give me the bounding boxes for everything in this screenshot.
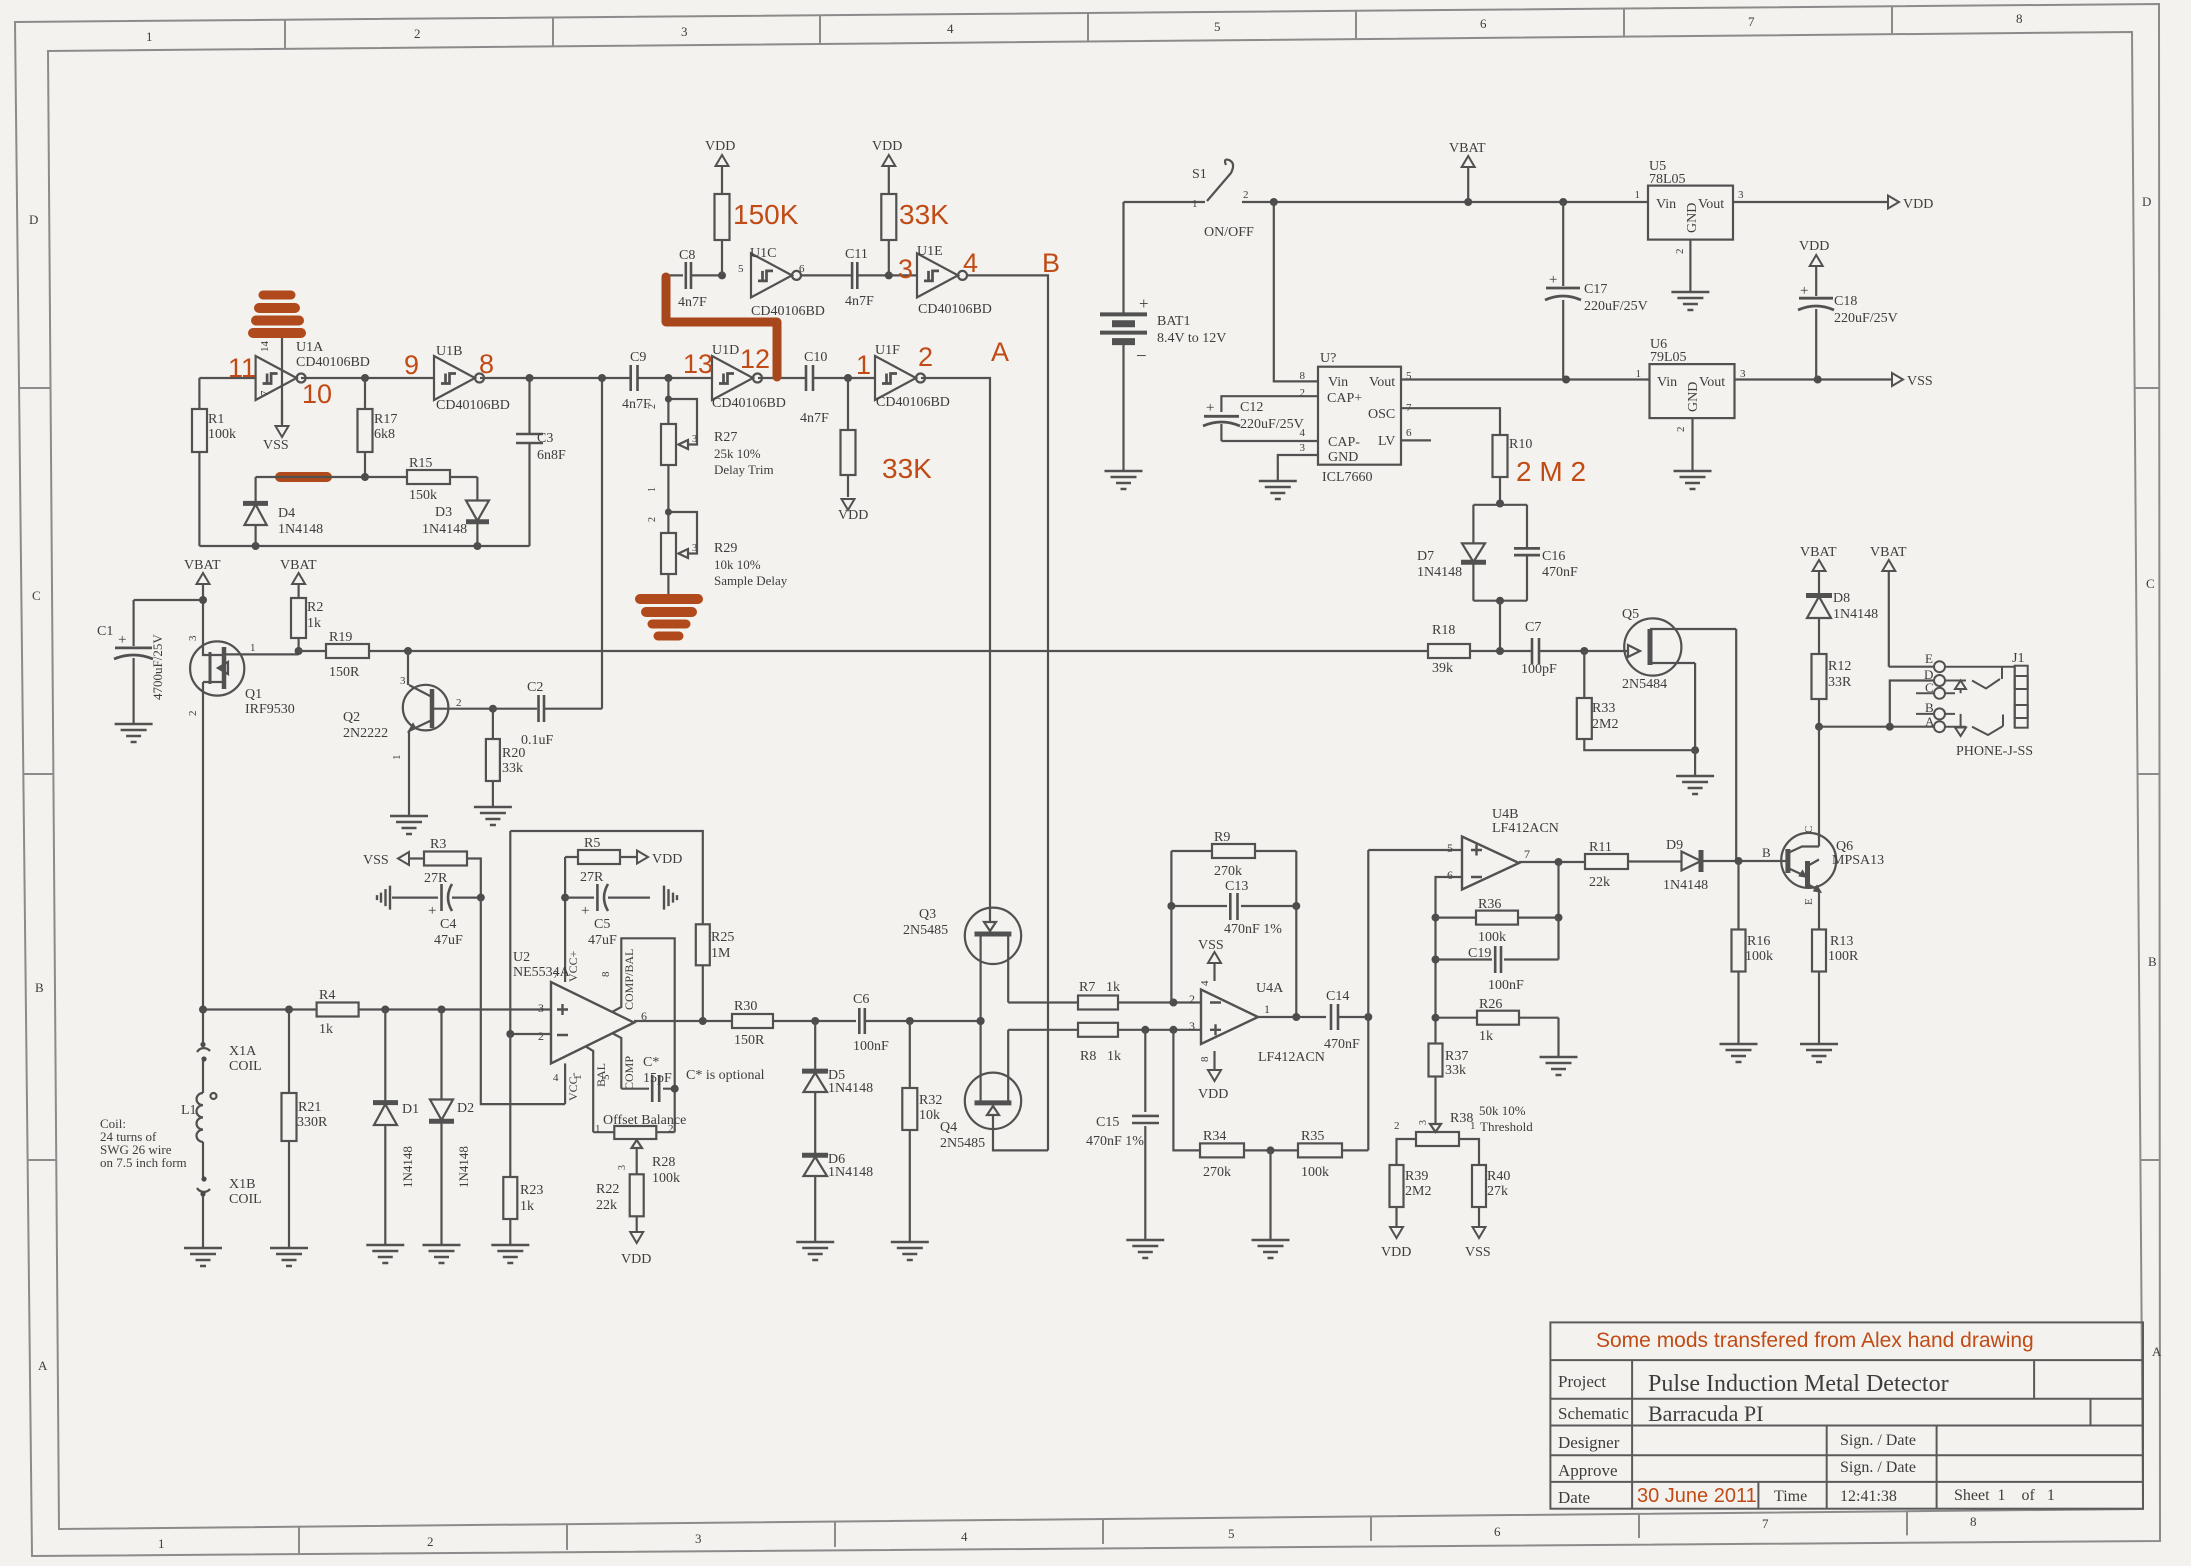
svg-text:C4: C4 [440,917,456,932]
wire U4A output [1258,1013,1326,1021]
svg-text:150K: 150K [733,199,799,230]
svg-text:C: C [2146,576,2155,591]
svg-text:R21: R21 [298,1100,321,1115]
ground below R23 [491,1245,529,1263]
svg-text:3: 3 [617,1165,628,1170]
capacitor C9 4n7F [622,350,712,412]
ground below Q2 emitter [390,816,428,834]
svg-text:1k: 1k [319,1022,333,1037]
ground below R13 [1800,1044,1838,1062]
orange annotation 9 [404,350,419,380]
svg-text:CD40106BD: CD40106BD [751,304,825,319]
svg-text:VSS: VSS [1198,938,1224,953]
svg-text:R15: R15 [409,456,432,471]
svg-text:ON/OFF: ON/OFF [1204,225,1254,240]
svg-text:4: 4 [963,248,978,278]
svg-text:47uF: 47uF [588,933,617,948]
svg-text:78L05: 78L05 [1649,172,1686,187]
trimmer R29 10k Sample Delay [647,508,788,601]
svg-text:2: 2 [647,517,658,522]
svg-text:27R: 27R [580,870,604,885]
svg-text:150R: 150R [329,665,360,680]
svg-text:33R: 33R [1828,675,1852,690]
wire U4B pin6 rail [1432,877,1463,1044]
svg-text:470nF 1%: 470nF 1% [1224,922,1282,937]
svg-text:1N4148: 1N4148 [422,522,467,537]
diode D4 1N4148 [243,477,323,546]
svg-text:Designer: Designer [1558,1433,1620,1452]
op-amp U7 ICL7660 (U?) [1300,351,1413,485]
svg-text:B: B [1762,845,1771,860]
svg-text:D9: D9 [1666,838,1683,853]
wire U1C output to C11 [801,274,852,276]
svg-text:4n7F: 4n7F [845,294,874,309]
svg-text:Barracuda PI: Barracuda PI [1648,1401,1763,1426]
svg-text:Q4: Q4 [940,1120,957,1135]
svg-text:C10: C10 [804,350,827,365]
svg-text:CD40106BD: CD40106BD [918,302,992,317]
svg-text:8: 8 [1970,1514,1977,1529]
pin 1 BAL stub of U2 [572,1046,608,1132]
svg-text:R34: R34 [1203,1129,1226,1144]
svg-text:Approve: Approve [1558,1461,1617,1480]
svg-text:R8: R8 [1080,1049,1096,1064]
capacitor C18 220uF/25V [1798,266,1898,380]
svg-text:BAT1: BAT1 [1157,314,1190,329]
svg-text:+: + [1139,294,1149,313]
svg-text:+: + [1800,283,1808,299]
diode D2 1N4148 [429,1010,474,1246]
svg-text:COMP/BAL: COMP/BAL [622,949,636,1010]
wire Q1 drain node to coil and R4 [199,1006,317,1014]
wire U4B output node [1519,858,1585,922]
svg-text:Pulse Induction Metal Detector: Pulse Induction Metal Detector [1648,1371,1949,1397]
resistor R7 1k [1078,980,1201,1010]
svg-text:R4: R4 [319,988,335,1003]
svg-text:U4A: U4A [1256,981,1284,996]
svg-text:VDD: VDD [1198,1087,1228,1102]
svg-text:Some mods transfered from Alex: Some mods transfered from Alex hand draw… [1596,1329,2034,1352]
svg-text:6: 6 [1494,1524,1501,1539]
svg-text:1: 1 [1470,1120,1476,1132]
pin 5 COMP stub of U2 [600,1033,636,1090]
svg-text:ICL7660: ICL7660 [1322,470,1373,485]
resistor R13 100R [1812,930,1859,1045]
trimmer R28 100k Offset Balance [593,1113,686,1186]
svg-text:S1: S1 [1192,167,1207,182]
svg-text:4: 4 [1199,980,1211,986]
svg-text:100nF: 100nF [853,1039,889,1054]
ground below R26 [1540,1057,1578,1075]
capacitor C8 4n7F [662,248,726,310]
svg-text:D4: D4 [278,506,295,521]
svg-text:5: 5 [1447,841,1453,855]
svg-text:A: A [991,337,1009,367]
svg-text:E: E [1803,898,1815,905]
svg-text:6: 6 [1406,427,1412,439]
transistor Q5 2N5484 JFET [1622,607,1736,754]
svg-text:Sheet 1 of 1: Sheet 1 of 1 [1954,1487,2055,1504]
resistor R34 270k [1200,1129,1298,1180]
power VBAT above D8 [1800,545,1837,594]
svg-text:8: 8 [600,971,612,977]
op-amp U1C CD40106BD inverter [750,246,825,319]
svg-text:Vout: Vout [1369,375,1395,390]
svg-text:470nF: 470nF [1542,565,1578,580]
svg-text:50k 10%: 50k 10% [1479,1103,1526,1118]
svg-text:R26: R26 [1479,997,1502,1012]
svg-text:R1: R1 [208,412,224,427]
diode D7 1N4148 [1417,543,1486,580]
svg-text:2: 2 [456,697,462,709]
connector J1 PHONE-J-SS [1916,651,2033,759]
svg-text:VDD: VDD [705,139,735,154]
svg-text:2M2: 2M2 [1405,1184,1431,1199]
resistor R39 2M2 [1390,1165,1432,1227]
svg-text:2: 2 [1394,1120,1400,1132]
svg-text:100k: 100k [1478,930,1506,945]
svg-text:C19: C19 [1468,946,1491,961]
op-amp U4A LF412ACN [1189,980,1325,1065]
svg-text:10k: 10k [919,1108,940,1123]
wire net A from U1F output [921,378,990,908]
svg-text:Date: Date [1558,1488,1590,1507]
wire pin3 rail to R34 [1173,1030,1200,1151]
diode D3 1N4148 [422,477,489,546]
svg-text:U1C: U1C [750,246,776,261]
switch S1 ON/OFF [1124,160,1274,240]
svg-text:3: 3 [1189,1019,1195,1033]
svg-text:12:41:38: 12:41:38 [1840,1488,1897,1505]
svg-text:3: 3 [692,543,697,554]
svg-text:VSS: VSS [263,438,289,453]
svg-text:1: 1 [856,350,871,380]
svg-text:2: 2 [668,1123,674,1135]
svg-text:Project: Project [1558,1372,1606,1391]
capacitor C11 4n7F [845,247,917,309]
node VSS at U1A [263,438,289,453]
wire feedback top to R25 [510,831,703,924]
svg-text:PHONE-J-SS: PHONE-J-SS [1956,744,2033,759]
svg-text:Delay Trim: Delay Trim [714,462,774,477]
svg-text:Vout: Vout [1698,197,1724,212]
svg-text:1: 1 [572,1075,584,1081]
op-amp U1B CD40106BD inverter [434,344,510,413]
svg-text:CAP-: CAP- [1328,435,1360,450]
svg-text:3: 3 [1300,442,1306,454]
svg-text:4: 4 [553,1072,559,1084]
svg-text:R16: R16 [1747,934,1770,949]
ground below R21 [270,1248,308,1266]
transistor Q1 IRF9530 MOSFET [187,600,299,1010]
svg-text:100R: 100R [1828,949,1859,964]
ground below C15 [1126,1240,1164,1258]
svg-text:A: A [1925,714,1935,729]
svg-text:+: + [1206,400,1214,416]
svg-text:220uF/25V: 220uF/25V [1834,311,1898,326]
svg-text:B: B [1925,700,1934,715]
svg-text:220uF/25V: 220uF/25V [1584,299,1648,314]
capacitor C13 470nF 1% [1167,879,1300,1017]
power VBAT arrow on rail [1449,141,1486,202]
svg-text:33K: 33K [899,199,949,230]
op-amp U1E CD40106BD inverter [917,244,992,317]
svg-text:1: 1 [1636,368,1642,380]
svg-text:VSS: VSS [1465,1245,1491,1260]
transistor Q4 2N5485 JFET [940,1030,1078,1151]
resistor R25 1M [696,924,735,1021]
connector X1B COIL [197,1176,262,1248]
svg-text:2: 2 [1189,992,1195,1006]
svg-text:1: 1 [595,1123,601,1135]
svg-text:R35: R35 [1301,1129,1324,1144]
svg-text:Sign. / Date: Sign. / Date [1840,1432,1916,1449]
capacitor C5 47uF [561,857,650,982]
svg-text:C16: C16 [1542,549,1565,564]
svg-text:VBAT: VBAT [1800,545,1837,560]
svg-text:A: A [2152,1344,2162,1359]
svg-text:VDD: VDD [652,852,682,867]
svg-text:D: D [2142,194,2151,209]
title row Schematic [1558,1401,1763,1426]
svg-text:R10: R10 [1509,437,1532,452]
svg-text:B: B [2148,954,2157,969]
diode D6 1N4148 [802,1152,873,1242]
svg-text:Vin: Vin [1656,197,1676,212]
resistor R36 100k [1436,897,1559,945]
svg-text:13: 13 [683,349,713,379]
orange annotation 4 [963,248,978,278]
svg-text:U1F: U1F [875,343,900,358]
svg-text:VDD: VDD [1903,197,1933,212]
orange annotation 2 M 2 [1516,456,1586,487]
svg-text:6: 6 [799,263,805,275]
svg-text:3: 3 [1740,368,1746,380]
svg-text:4n7F: 4n7F [800,411,829,426]
svg-text:1: 1 [250,642,256,654]
svg-text:R5: R5 [584,836,600,851]
svg-text:C9: C9 [630,350,646,365]
wire C2 up to C9 node [601,378,603,709]
svg-text:VDD: VDD [838,508,868,523]
svg-text:VDD: VDD [621,1252,651,1267]
svg-text:30 June 2011: 30 June 2011 [1637,1485,1757,1507]
power VDD below U4A [1198,1051,1228,1102]
svg-text:R36: R36 [1478,897,1501,912]
orange marker stroke on D4 wire [280,472,327,482]
transistor Q6 MPSA13 darlington [1781,833,1884,930]
svg-text:14: 14 [259,341,271,353]
power VSS above U4A [1198,938,1224,981]
wire VBAT rail from S1 to U5 [1270,198,1648,206]
svg-text:2: 2 [414,26,421,41]
svg-text:Q1: Q1 [245,687,262,702]
op-amp U6 79L05 regulator [1636,337,1747,432]
svg-text:2: 2 [187,711,199,717]
resistor R35 100k [1298,850,1368,1180]
resistor R5 27R [565,836,637,885]
svg-text:4n7F: 4n7F [678,295,707,310]
svg-text:1N4148: 1N4148 [828,1081,873,1096]
power VDD below R22 [621,1232,651,1267]
svg-text:3: 3 [692,434,697,445]
wire VBAT to jack pin E [1889,666,1933,668]
svg-text:+: + [428,903,436,919]
svg-text:R32: R32 [919,1093,942,1108]
svg-text:R33: R33 [1592,701,1615,716]
capacitor C16 470nF [1514,548,1578,580]
diode D1 1N4148 [373,1010,419,1246]
capacitor C3 6n8F [516,378,566,546]
svg-text:U1E: U1E [917,244,943,259]
diode D9 1N4148 [1663,838,1788,893]
svg-text:7: 7 [1748,14,1755,29]
svg-text:R28: R28 [652,1155,675,1170]
resistor 150K (orange annotated) above C8 [715,167,730,275]
svg-text:D8: D8 [1833,591,1850,606]
svg-text:15pF: 15pF [643,1071,672,1086]
wire U1B output node [480,374,631,382]
svg-text:CD40106BD: CD40106BD [712,396,786,411]
resistor 33K (orange annotated) above C11 [881,167,896,275]
svg-text:R9: R9 [1214,830,1230,845]
svg-text:4700uF/25V: 4700uF/25V [150,634,165,700]
wire long row from R19 to R18 [369,647,1428,655]
svg-text:C18: C18 [1834,294,1857,309]
svg-text:Sign. / Date: Sign. / Date [1840,1459,1916,1476]
svg-text:8: 8 [479,349,494,379]
ground at U5 [1671,292,1709,310]
svg-text:R17: R17 [374,412,397,427]
wire D7 C16 parallel branch [1473,505,1527,651]
svg-text:U?: U? [1320,351,1336,366]
power VDD above 150K [705,139,735,166]
svg-text:GND: GND [1328,450,1358,465]
trimmer R38 50k Threshold [1394,1103,1533,1165]
capacitor C6 100nF [853,992,985,1054]
svg-text:270k: 270k [1203,1165,1231,1180]
power VDD below 33K [838,499,868,523]
svg-text:Vin: Vin [1328,375,1348,390]
svg-text:8.4V to 12V: 8.4V to 12V [1157,331,1226,346]
ground below C1 [115,724,153,742]
resistor R17 6k8 [358,378,398,477]
svg-text:L1: L1 [181,1103,197,1118]
svg-text:3: 3 [1738,189,1744,201]
capacitor C17 220uF/25V [1545,202,1648,380]
svg-text:U1B: U1B [436,344,462,359]
inductor L1 [181,1059,217,1177]
svg-text:100k: 100k [652,1171,680,1186]
resistor R37 33k [1429,1044,1469,1125]
svg-text:C: C [32,588,41,603]
svg-text:Vin: Vin [1657,375,1677,390]
svg-text:3: 3 [187,635,199,641]
svg-text:+: + [1549,272,1557,288]
resistor R32 10k [902,1021,942,1242]
svg-text:7: 7 [1524,847,1530,861]
svg-text:D2: D2 [457,1101,474,1116]
transistor Q2 2N2222 [343,651,493,816]
orange annotation 150K [733,199,799,230]
svg-text:C7: C7 [1525,620,1541,635]
resistor R33 2M2 [1577,651,1695,750]
op-amp U5 78L05 regulator [1635,159,1745,254]
wire S1 to U7 Vin [1274,202,1318,381]
capacitor C* 15pF optional [621,1055,764,1102]
power VBAT above jack [1870,545,1907,667]
wire U2 output node [634,1017,732,1025]
svg-text:C2: C2 [527,680,543,695]
svg-text:33k: 33k [502,761,523,776]
svg-text:BAL: BAL [594,1063,608,1087]
svg-text:1N4148: 1N4148 [456,1146,471,1188]
svg-text:VDD: VDD [872,139,902,154]
svg-text:COMP: COMP [622,1056,636,1090]
svg-text:8: 8 [1300,370,1306,382]
op-amp U1F CD40106BD inverter [875,343,950,410]
power VDD below R39 [1381,1227,1411,1260]
svg-text:VDD: VDD [1381,1245,1411,1260]
op-amp U1D CD40106BD inverter [712,343,786,411]
svg-text:R27: R27 [714,430,737,445]
svg-text:D: D [29,212,38,227]
svg-text:470nF 1%: 470nF 1% [1086,1134,1144,1149]
svg-text:10k 10%: 10k 10% [714,557,761,572]
svg-text:3: 3 [400,675,406,687]
resistor R8 1k [1078,1023,1201,1064]
wire U6 Vout to VSS [1735,373,1933,389]
node B at Q6 base [1762,845,1771,860]
wire U2 VCC- pin4 [564,1063,566,1104]
svg-text:7: 7 [259,390,271,396]
trimmer R27 25k Delay Trim [647,378,774,508]
svg-text:VSS: VSS [363,853,389,868]
svg-text:R2: R2 [307,600,323,615]
resistor R40 27k [1472,1165,1510,1227]
wire net B from U1E output [967,275,1048,1150]
svg-text:39k: 39k [1432,661,1453,676]
wire U1A output to U1B [301,374,434,382]
svg-text:Vout: Vout [1699,375,1725,390]
svg-text:C12: C12 [1240,400,1263,415]
svg-text:5: 5 [1228,1526,1235,1541]
svg-text:1: 1 [158,1536,165,1551]
svg-text:X1B: X1B [229,1177,255,1192]
svg-text:1k: 1k [1107,1049,1121,1064]
node B label [1042,248,1060,278]
svg-text:D3: D3 [435,505,452,520]
svg-text:27R: 27R [424,871,448,886]
svg-text:CAP+: CAP+ [1327,391,1362,406]
svg-text:C13: C13 [1225,879,1248,894]
power VBAT above R2 [280,558,317,584]
svg-text:1k: 1k [1106,980,1120,995]
svg-text:220uF/25V: 220uF/25V [1240,417,1304,432]
resistor R22 22k [596,1174,644,1232]
orange annotation 12 [740,344,770,374]
svg-text:6k8: 6k8 [374,427,395,442]
resistor R12 33R [1812,654,1853,731]
resistor R16 100k [1732,861,1774,1044]
svg-text:D1: D1 [402,1102,419,1117]
svg-text:8: 8 [2016,11,2023,26]
orange annotation 3 [898,254,913,284]
svg-text:R23: R23 [520,1183,543,1198]
svg-text:9: 9 [404,350,419,380]
capacitor C2 0.1uF [489,680,602,748]
op-amp U2 NE5534A [513,950,647,1101]
